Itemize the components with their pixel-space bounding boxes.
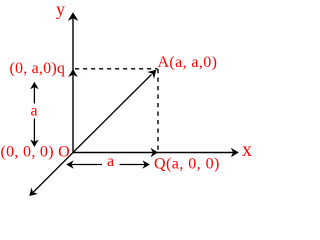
- vector arrow O to A: [73, 70, 156, 153]
- dashed line q to A: [75, 68, 158, 70]
- dimension double arrow a horizontal: [66, 160, 150, 169]
- svg-text:Q(a, 0, 0): Q(a, 0, 0): [154, 156, 220, 173]
- svg-text:a: a: [107, 153, 114, 170]
- vector arrowhead O to Q on x-axis: [151, 148, 159, 158]
- svg-text:A(a, a,0): A(a, a,0): [158, 54, 218, 71]
- dashed line A to Q: [157, 69, 159, 150]
- dimension double arrow a vertical: [30, 82, 39, 147]
- svg-text:(0, 0, 0) O: (0, 0, 0) O: [1, 143, 71, 160]
- x-axis: [73, 148, 239, 158]
- svg-text:x: x: [242, 139, 252, 161]
- z-axis: [29, 153, 73, 197]
- svg-text:y: y: [56, 0, 65, 19]
- y-axis: [68, 12, 79, 152]
- svg-text:(0, a,0)q: (0, a,0)q: [10, 60, 66, 77]
- svg-text:a: a: [31, 103, 38, 120]
- vector arrowhead O to q on y-axis: [68, 69, 78, 77]
